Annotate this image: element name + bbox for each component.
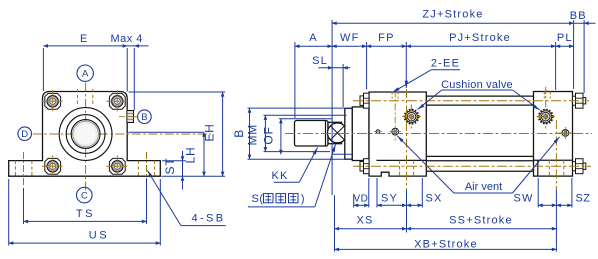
svg-text:PJ+Stroke: PJ+Stroke	[449, 32, 511, 44]
svg-text:B: B	[141, 112, 147, 123]
svg-text:SY: SY	[381, 193, 398, 205]
svg-text:E: E	[80, 33, 89, 45]
svg-text:SX: SX	[425, 193, 442, 205]
svg-text:ST: ST	[163, 158, 177, 175]
svg-text:TS: TS	[76, 208, 95, 220]
svg-text:XS: XS	[356, 215, 373, 227]
svg-text:SW: SW	[513, 193, 533, 205]
svg-text:): )	[301, 193, 305, 205]
svg-text:WF: WF	[340, 32, 360, 44]
svg-text:SS+Stroke: SS+Stroke	[449, 215, 513, 227]
svg-text:XB+Stroke: XB+Stroke	[414, 239, 478, 251]
svg-text:EH: EH	[203, 123, 217, 141]
svg-text:VD: VD	[354, 194, 369, 205]
svg-text:US: US	[89, 230, 109, 242]
svg-text:MM: MM	[246, 124, 260, 146]
svg-text:ZJ+Stroke: ZJ+Stroke	[422, 8, 483, 20]
svg-text:A: A	[309, 32, 318, 44]
svg-text:D: D	[21, 129, 28, 140]
svg-text:FP: FP	[378, 32, 394, 44]
svg-text:S(: S(	[252, 193, 264, 205]
svg-text:Max 4: Max 4	[110, 33, 142, 45]
svg-text:C: C	[81, 191, 88, 202]
svg-text:SL: SL	[312, 55, 328, 67]
svg-text:4-SB: 4-SB	[191, 213, 225, 225]
svg-text:Air vent: Air vent	[465, 181, 502, 193]
svg-text:2-EE: 2-EE	[431, 58, 460, 70]
svg-text:Cushion valve: Cushion valve	[441, 79, 513, 91]
svg-text:OF: OF	[262, 126, 276, 144]
svg-text:B: B	[232, 129, 246, 138]
svg-text:PL: PL	[557, 32, 573, 44]
svg-text:A: A	[82, 69, 89, 80]
svg-text:KK: KK	[271, 170, 288, 182]
svg-text:SZ: SZ	[575, 193, 590, 205]
